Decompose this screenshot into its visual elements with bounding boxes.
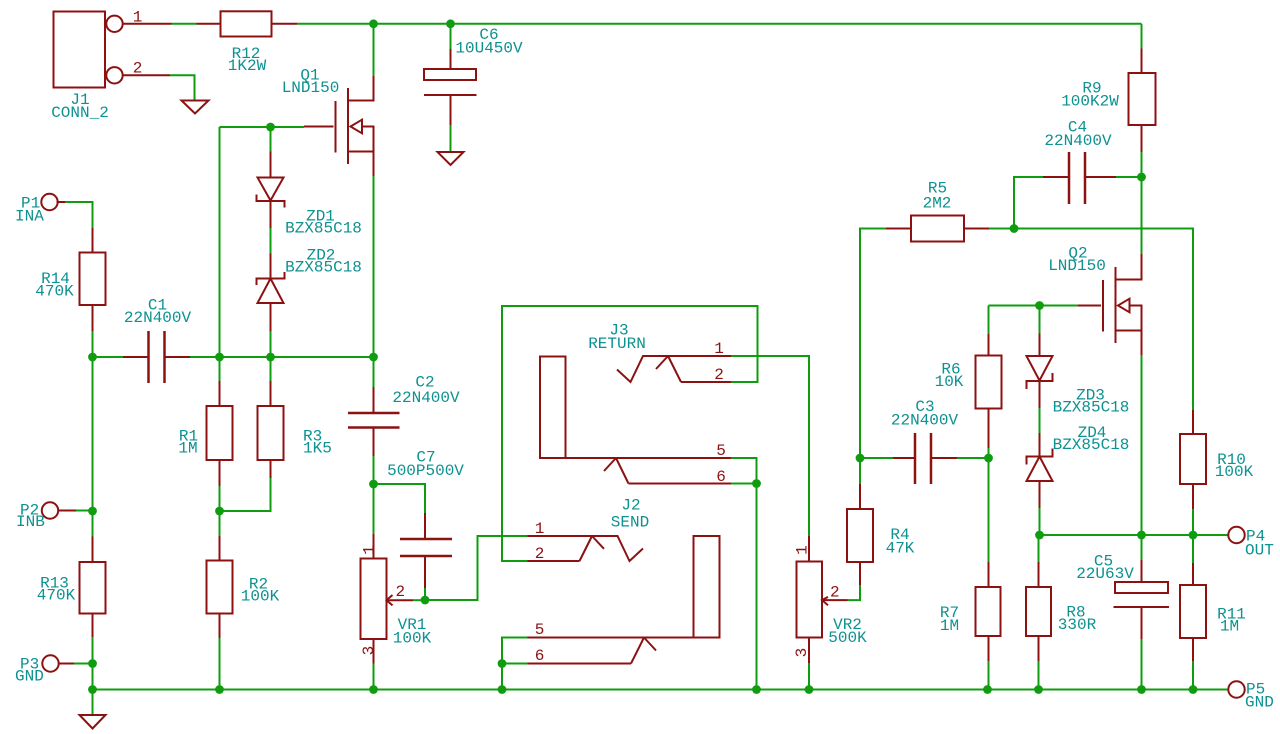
wire ZD3 top lead [1039,306,1041,334]
svg-text:6: 6 [535,647,545,665]
zener diode ZD1 [257,152,285,229]
wire R9 top lead from rail [1141,24,1143,49]
wire R5 right to R10 column [989,229,1193,411]
zener diode ZD3 [1027,334,1053,409]
svg-text:22N400V: 22N400V [1044,132,1112,150]
svg-text:2: 2 [830,584,840,602]
wire R8 bottom to rail [1038,661,1040,690]
svg-text:22U63V: 22U63V [1076,565,1134,583]
svg-text:GND: GND [1245,694,1274,712]
svg-text:RETURN: RETURN [588,335,646,353]
zener diode ZD2 [257,254,285,332]
wire C1 to R1/R3/C2 nodes [190,356,374,358]
junction R10/R11 node [1189,531,1198,540]
wire ZD4 bottom to C5 node [1039,508,1041,535]
resistor R2 [207,536,233,638]
wire R1 bottom to P2 node [219,486,221,511]
svg-text:INA: INA [15,208,44,226]
svg-text:LND150: LND150 [1048,257,1106,275]
junction gate/ZD3 node [1035,301,1044,310]
wire gate corner down to C1 node [219,127,221,357]
wire C2 top lead [373,357,375,387]
wire gate corner down to R6 [988,306,990,335]
port P4 [1228,527,1244,543]
wire P1 to R14 [65,202,93,228]
wire R7 bottom to rail [988,661,990,690]
resistor R13 [80,537,106,638]
wire VR1 pin3 to rail [373,664,375,690]
svg-text:470K: 470K [35,283,74,301]
wire J3 pin6 [731,483,757,485]
wire C7 branch horizontal [374,484,426,513]
wire C6 top lead [450,24,452,49]
connector J1 [54,12,172,88]
capacitor C4 [1043,152,1116,204]
svg-text:OUT: OUT [1245,542,1274,560]
wire J2 pin5 down [502,638,528,690]
port P5 [1228,681,1244,697]
svg-text:470K: 470K [37,587,76,605]
wire VR1 wiper to junction [413,599,425,601]
resistor R3 [258,381,284,478]
capacitor C5 (polarized) [1114,560,1170,639]
svg-text:10U450V: 10U450V [455,40,523,58]
junction rail J3 [752,685,761,694]
svg-text:330R: 330R [1058,616,1097,634]
resistor R1 [207,381,233,486]
resistor R10 [1180,410,1206,509]
wire C4 right to R9 node [1116,176,1142,178]
svg-text:BZX85C18: BZX85C18 [1053,399,1130,417]
resistor R7 [976,562,1001,661]
zener diode ZD4 [1027,433,1053,508]
svg-text:1M: 1M [940,617,959,635]
wire node down to Q2 drain [1141,177,1143,254]
transistor Q2 LND150 [1078,254,1142,355]
svg-text:1K5: 1K5 [303,440,332,458]
junction R1 top node [215,353,224,362]
junction rail R11 [1189,685,1198,694]
svg-text:6: 6 [716,468,726,486]
capacitor C7 [400,513,452,588]
wire C2 bottom to VR1 node [373,456,375,484]
junction rail R7 [983,685,992,694]
wire R13 bottom to P3 node [92,637,94,664]
junction C5 top node [1137,531,1146,540]
potentiometer VR1 [361,534,414,664]
wire R4 top to C3 node [859,458,861,484]
wire C5 bottom to rail [1141,639,1143,690]
junction rail VR1 [369,685,378,694]
junction rail C5 [1137,685,1146,694]
wire VR1 pin1 lead [373,484,375,534]
port P2 [42,502,76,518]
resistor R5 [886,216,989,242]
wire Q1 source down to C2 node [373,176,375,357]
wire C4 left lead up [1014,177,1043,229]
ground symbol at J1 pin2 [182,101,209,114]
junction P2 column [88,507,97,516]
svg-text:22N400V: 22N400V [891,412,959,430]
wire R9 bottom to node [1141,152,1143,177]
junction rail J2 [498,685,507,694]
jack J3 RETURN [540,356,731,484]
svg-text:CONN_2: CONN_2 [51,104,109,122]
junction C4 left node [1010,224,1019,233]
wire R14 column down through P2 node [92,357,94,537]
junction ZD2/R3 node [266,353,275,362]
wire P2 to column [76,510,93,512]
bottom ground rail [93,689,1230,691]
resistor R11 [1180,563,1206,661]
junction top rail at Q1 drain [369,19,378,28]
wire R7 top lead [988,458,990,562]
wire J3 sleeve to rail [756,484,758,690]
capacitor C2 [348,387,400,456]
svg-text:2: 2 [714,366,724,384]
wire J1 pin1 to R12 [172,23,197,25]
wire C7 bottom to wiper node [424,588,426,600]
resistor R6 [976,334,1002,448]
svg-text:1: 1 [535,520,545,538]
svg-text:100K: 100K [241,588,280,606]
svg-text:3: 3 [793,648,811,658]
wire R1 top lead [219,357,221,381]
junction C2/Q1 source node [369,353,378,362]
svg-text:100K2W: 100K2W [1061,93,1119,111]
svg-text:INB: INB [16,513,45,531]
junction VR1 wiper node [421,596,430,605]
wire wiper node to J2 pin1 [425,536,528,600]
svg-text:100K: 100K [1215,463,1254,481]
ground symbol bottom left [80,715,106,729]
wire J2 pin2 up the loop [502,306,758,561]
wire R14 to C1 node [92,331,94,357]
svg-text:2: 2 [133,60,143,78]
svg-text:SEND: SEND [611,514,649,532]
junction rail P3 column [88,685,97,694]
junction P3 node [88,659,97,668]
resistor R9 [1129,49,1156,153]
junction ZD4/R8 node [1035,531,1044,540]
wire VR2 pin3 to rail [808,663,810,690]
wire J3 pin1 to VR2 pin1 [731,356,809,536]
wire R6 bottom to C3 node [988,448,990,458]
wire top rail R12 to R9 corner [297,23,1142,25]
svg-text:22N400V: 22N400V [124,309,192,327]
wire ZD1 top lead [270,127,272,152]
junction P2 node [215,507,224,516]
wire between ZD1 and ZD2 [270,228,272,254]
junction R9/C4/Q2 drain node [1137,173,1146,182]
svg-text:5: 5 [535,621,545,639]
wire C1 node horizontal [93,356,124,358]
potentiometer VR2 [797,536,848,663]
svg-text:BZX85C18: BZX85C18 [285,220,362,238]
resistor R12 [197,11,298,36]
svg-text:1: 1 [794,545,812,555]
junction C2/C7/VR1 node [369,480,378,489]
svg-text:1M: 1M [178,440,197,458]
jack J2 SEND [528,536,720,664]
junction R4/C3/R5 node [856,454,865,463]
junction J3 pin6 node [752,479,761,488]
svg-text:1M: 1M [1220,618,1239,636]
wire R10 bottom to output node [1192,509,1194,535]
wire R5 left column [860,229,886,459]
capacitor C3 [893,433,957,484]
wire R11 top lead [1192,535,1194,563]
junction rail R2 [215,685,224,694]
wire C6 bottom to ground [450,125,452,152]
wire between ZD3 and ZD4 [1039,408,1041,433]
ground symbol below C6 [438,152,464,165]
svg-text:5: 5 [716,442,726,460]
wire J3 pin5 to pin6 junction [731,458,757,484]
svg-text:3: 3 [360,646,378,656]
wire Q2 source down to C5 node [1141,355,1143,535]
svg-text:BZX85C18: BZX85C18 [285,259,362,277]
svg-text:1: 1 [361,545,379,555]
wire R3 bottom bend to P2 node [220,478,271,511]
wire J1 pin2 to ground [170,75,195,100]
wire VR2 wiper to R4 [848,585,861,600]
junction rail R8 [1034,685,1043,694]
svg-text:500P500V: 500P500V [387,462,464,480]
svg-text:1K2W: 1K2W [228,57,267,75]
resistor R14 [80,228,106,331]
wire J2 pin6 stub [502,663,528,665]
svg-text:GND: GND [15,668,44,686]
svg-text:BZX85C18: BZX85C18 [1053,436,1130,454]
svg-text:2: 2 [535,545,545,563]
wire P3 node to bottom rail [92,664,94,716]
wire C5 top lead [1141,535,1143,560]
port P3 [42,655,74,671]
svg-text:10K: 10K [935,373,964,391]
resistor R8 [1026,562,1051,661]
junction top rail at C6 [446,19,455,28]
wire C3 left lead [860,457,893,459]
wire R2 bottom to rail [219,638,221,690]
junction rail VR2 [805,685,814,694]
svg-text:500K: 500K [828,629,867,647]
wire R3 top lead [270,357,272,381]
capacitor C6 (polarized) [424,49,477,125]
svg-text:22N400V: 22N400V [392,389,460,407]
svg-text:1: 1 [714,340,724,358]
transistor Q1 LND150 [304,76,374,176]
svg-text:1: 1 [133,9,143,27]
junction C1 node left [88,353,97,362]
port P1 [41,194,65,210]
wire R8 top lead [1038,535,1040,562]
svg-text:2: 2 [396,583,406,601]
svg-text:J2: J2 [621,497,640,515]
wire P3 to column [74,663,93,665]
wire ZD2 bottom lead [270,331,272,357]
svg-text:LND150: LND150 [282,79,340,97]
capacitor C1 [123,331,190,383]
wire Q1 gate [220,126,305,128]
wire R11 bottom to rail [1192,661,1194,690]
resistor R4 [847,484,873,585]
junction R6/C3/R7 node [984,454,993,463]
wire R2 top lead [219,511,221,536]
wire Q2 gate [989,305,1079,307]
wire C3 right lead [957,457,989,459]
wire Q1 drain to top rail [373,24,375,76]
svg-text:47K: 47K [886,540,915,558]
junction gate wire / ZD1 [266,123,275,132]
svg-text:100K: 100K [393,630,432,648]
svg-text:2M2: 2M2 [923,195,952,213]
junction J2 pin6 node [498,659,507,668]
wire output node horizontal [1040,534,1230,536]
